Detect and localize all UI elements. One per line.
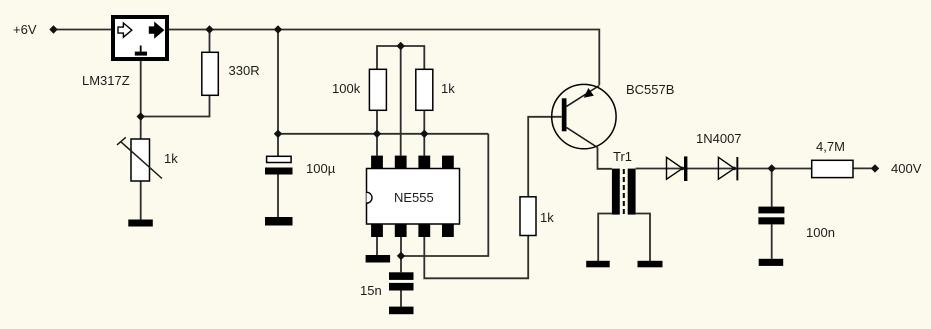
transistor BC557B circle — [552, 84, 616, 148]
diode D2 cathode bar — [736, 157, 738, 180]
wire pin B3 output to 1k base resistor — [424, 236, 528, 279]
ground below pin B1 — [366, 255, 391, 263]
svg-text:1k: 1k — [441, 81, 455, 96]
pin B2 — [395, 224, 407, 237]
wire 4,7M to 400V terminal — [853, 167, 872, 169]
wire transformer left winding bottom to ground — [598, 214, 612, 262]
wire 15n to ground — [400, 291, 402, 307]
resistor 1k top — [416, 69, 433, 110]
svg-text:Tr1: Tr1 — [613, 149, 632, 164]
wire 100n cap to ground — [771, 224, 773, 258]
svg-text:BC557B: BC557B — [626, 82, 674, 97]
junction pin B2 node — [397, 252, 405, 260]
ground below 100n — [759, 259, 784, 266]
capacitor 100u minus plate — [265, 168, 293, 175]
junction at (377,133) — [373, 130, 381, 138]
pin T3 — [418, 156, 430, 169]
terminal +6V — [49, 25, 57, 33]
IC notch — [367, 192, 373, 203]
transistor collector line — [567, 128, 598, 148]
capacitor 100n plate 1 — [758, 207, 784, 214]
pin T1 — [371, 156, 383, 169]
wire 1k to transistor base — [528, 117, 562, 197]
transistor emitter line — [567, 86, 600, 107]
svg-text:15n: 15n — [360, 283, 382, 298]
svg-text:330R: 330R — [229, 63, 260, 78]
wire pin B2 junction to 15n — [400, 256, 402, 272]
capacitor 15n plate 1 — [389, 272, 414, 280]
svg-text:LM317Z: LM317Z — [82, 73, 130, 88]
svg-text:NE555: NE555 — [394, 190, 434, 205]
transformer Tr1 left winding — [612, 169, 620, 215]
junction resistor tops bridge — [397, 42, 405, 50]
pin T4 — [442, 156, 454, 169]
ground below 100u — [265, 217, 293, 226]
regulator output filled arrow — [150, 23, 164, 37]
potentiometer wiper diagonal — [121, 142, 163, 179]
regulator adj ground mark — [140, 46, 142, 52]
pin B4 — [442, 224, 454, 237]
diode D1 tip dot — [681, 167, 685, 171]
wire feedback loop pin T3 to pin B2 — [401, 134, 488, 256]
capacitor 15n plate 2 — [389, 283, 414, 291]
junction bus at (278,133) — [274, 130, 282, 138]
wire potentiometer to ground — [140, 181, 142, 220]
wire 330R top stub — [209, 30, 211, 53]
ground transformer left — [586, 261, 610, 268]
wire pin T2 up to bridge — [400, 46, 402, 156]
junction at 330R top — [205, 25, 213, 33]
resistor 4,7M — [812, 160, 853, 177]
wire horizontal bus y=133 — [278, 133, 488, 135]
wire transformer right winding top through diodes to 4,7M resistor — [636, 168, 812, 170]
junction LM317 adj / 330R / pot — [137, 112, 145, 120]
svg-text:100k: 100k — [332, 81, 361, 96]
wire resistor tops bridge — [377, 46, 424, 69]
wire top rail junction down to 100u cap — [277, 30, 279, 157]
diode D2 tip dot — [732, 167, 736, 171]
diode D1 triangle — [667, 157, 683, 179]
wire 100k bottom to pin T1 — [376, 110, 378, 155]
svg-text:1N4007: 1N4007 — [696, 131, 742, 146]
svg-text:100n: 100n — [806, 225, 835, 240]
transformer Tr1 right winding — [628, 169, 636, 215]
transistor emitter arrow — [584, 88, 594, 98]
wire LM317 adj down to potentiometer — [140, 61, 142, 139]
junction at (424,133) — [420, 130, 428, 138]
capacitor 100n plate 2 — [758, 217, 784, 224]
transformer core dashed line — [623, 169, 625, 215]
resistor 1k base — [520, 197, 536, 236]
diode D1 cathode bar — [684, 156, 687, 181]
svg-text:400V: 400V — [891, 161, 922, 176]
transistor base bar — [562, 98, 567, 131]
resistor 330R — [202, 52, 219, 95]
svg-text:4,7M: 4,7M — [816, 139, 845, 154]
wire collector to transformer left winding — [598, 148, 612, 169]
terminal 400V — [871, 164, 879, 172]
wire pin B1 to ground — [376, 237, 378, 255]
ground transformer right — [638, 261, 663, 268]
ground below potentiometer — [128, 220, 153, 227]
pin T2 — [395, 156, 407, 169]
ground below 15n — [389, 307, 414, 315]
wire 1k bottom to pin T3 — [423, 110, 425, 155]
svg-text:+6V: +6V — [13, 22, 37, 37]
pin B3 — [418, 224, 430, 237]
regulator LM317Z box — [113, 17, 167, 59]
IC NE555 body — [367, 169, 460, 225]
resistor 100k — [369, 69, 386, 110]
svg-text:1k: 1k — [164, 151, 178, 166]
junction top rail at x=278 — [274, 25, 282, 33]
svg-text:100µ: 100µ — [306, 161, 336, 176]
wire transformer right winding bottom to ground — [636, 214, 650, 262]
potentiometer 1k body — [131, 139, 150, 181]
pin B1 — [371, 224, 383, 237]
capacitor 100u plus plate — [267, 156, 292, 162]
regulator input open arrow — [118, 23, 132, 37]
wire LM317 output top rail to transistor emitter — [169, 30, 599, 86]
wire junction down to 100n cap — [771, 168, 773, 206]
wire +6V terminal to LM317 — [57, 29, 111, 31]
wire 330R bottom to adj junction — [141, 95, 210, 116]
svg-text:1k: 1k — [540, 210, 554, 225]
potentiometer wiper tick — [117, 137, 126, 145]
wire 100u cap to ground — [277, 175, 279, 218]
diode D2 triangle — [718, 157, 734, 179]
junction diodes / 100n / 4,7M — [768, 164, 776, 172]
